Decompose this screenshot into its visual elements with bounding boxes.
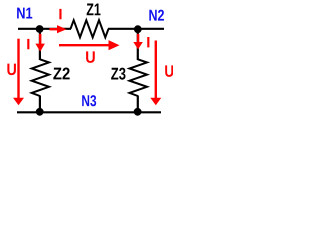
svg-text:U: U: [85, 48, 95, 67]
voltage arrow U left side: [13, 39, 24, 106]
wire right branch upper: [137, 29, 139, 60]
resistor Z3: [130, 59, 148, 96]
resistor Z1: [71, 20, 109, 37]
node N2 junction dot: [134, 25, 142, 33]
svg-text:N1: N1: [16, 6, 33, 23]
svg-text:Z1: Z1: [86, 0, 101, 19]
current arrow I at N1 into Z2: [35, 34, 45, 52]
wire right branch lower: [137, 96, 139, 113]
resistor Z2: [32, 59, 49, 96]
svg-text:Z3: Z3: [111, 65, 126, 84]
wire top right: Z1 to N2 terminal: [108, 28, 164, 30]
node N3 bottom right junction dot: [134, 108, 142, 116]
wire bottom: N3 rail: [17, 111, 161, 113]
wire left branch upper: [39, 29, 41, 60]
voltage arrow U right side: [150, 41, 161, 106]
svg-text:I: I: [146, 34, 150, 51]
svg-text:U: U: [164, 62, 173, 81]
svg-text:N3: N3: [81, 93, 96, 110]
wire top left: N1 terminal to Z1: [18, 28, 71, 30]
svg-text:N2: N2: [148, 8, 164, 25]
node N1 junction dot: [36, 25, 44, 33]
current arrow I at N1 into Z1: [50, 25, 67, 33]
wire left branch lower: [39, 96, 41, 113]
current arrow I at N2 into Z3: [133, 34, 143, 50]
voltage arrow U across Z1: [59, 40, 120, 50]
svg-text:I: I: [26, 36, 30, 53]
svg-text:U: U: [6, 60, 16, 79]
svg-text:Z2: Z2: [53, 64, 70, 83]
node N3 bottom left junction dot: [36, 108, 44, 116]
svg-text:I: I: [58, 6, 62, 23]
